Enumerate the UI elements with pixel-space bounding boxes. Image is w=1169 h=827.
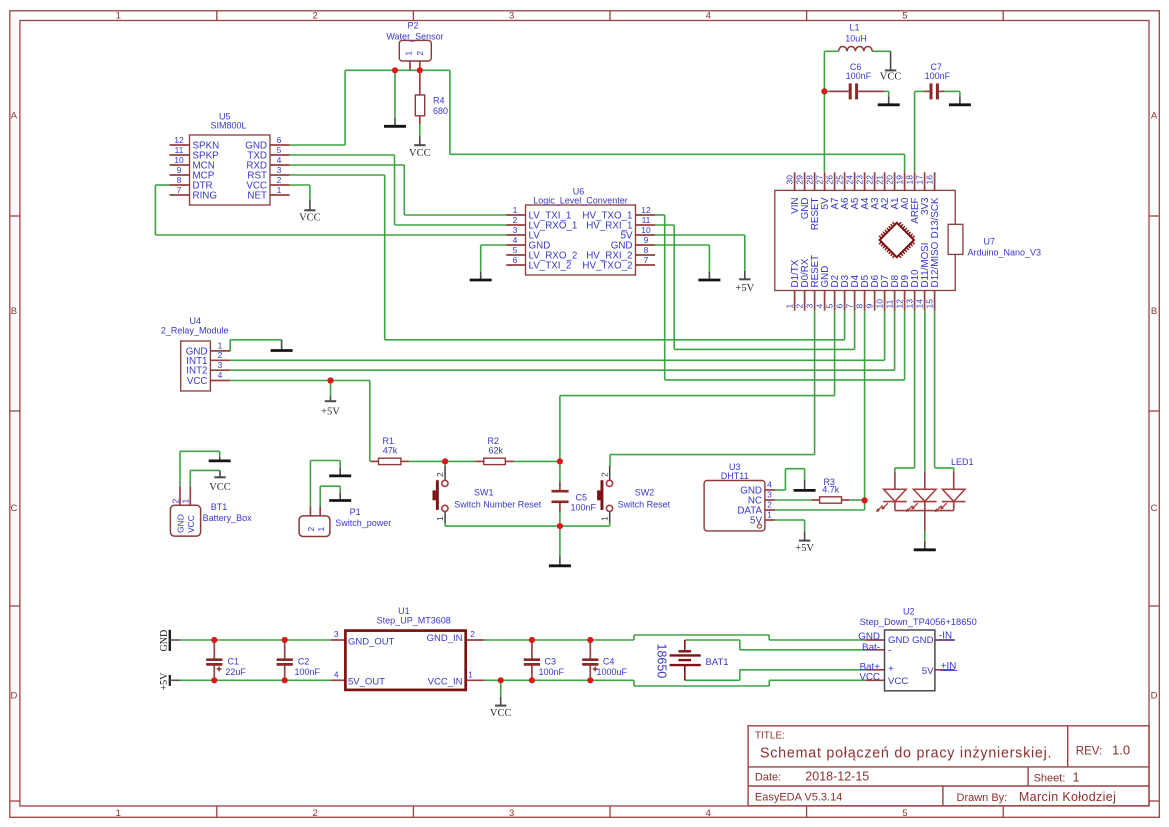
svg-text:5: 5	[277, 145, 282, 155]
svg-text:5: 5	[824, 304, 834, 309]
svg-text:VCC: VCC	[888, 676, 908, 687]
svg-text:1: 1	[600, 516, 610, 521]
svg-text:23: 23	[854, 175, 864, 185]
svg-text:3: 3	[218, 360, 223, 370]
svg-text:100nF: 100nF	[846, 71, 872, 81]
svg-text:2: 2	[218, 350, 223, 360]
svg-text:SW2: SW2	[635, 488, 655, 498]
svg-text:4: 4	[277, 155, 282, 165]
svg-text:L1: L1	[849, 23, 859, 33]
svg-text:Arduino_Nano_V3: Arduino_Nano_V3	[968, 248, 1042, 258]
svg-text:3: 3	[767, 490, 772, 500]
svg-text:1: 1	[435, 516, 445, 521]
svg-text:D12/MISO: D12/MISO	[930, 241, 941, 287]
svg-text:20: 20	[884, 175, 894, 185]
svg-text:11: 11	[642, 215, 651, 225]
svg-text:U4: U4	[190, 316, 202, 326]
svg-text:1: 1	[468, 669, 473, 679]
svg-text:3: 3	[509, 808, 514, 819]
svg-text:VCC_IN: VCC_IN	[428, 677, 463, 688]
svg-text:4: 4	[706, 808, 711, 819]
svg-text:12: 12	[894, 299, 904, 309]
svg-text:REV:: REV:	[1076, 746, 1102, 758]
svg-text:9: 9	[864, 304, 874, 309]
svg-text:D: D	[1151, 691, 1158, 702]
svg-text:2: 2	[312, 10, 317, 21]
svg-text:P1: P1	[350, 507, 361, 517]
svg-text:4: 4	[334, 669, 339, 679]
svg-text:1: 1	[784, 304, 794, 309]
svg-text:Battery_Box: Battery_Box	[203, 513, 253, 523]
svg-text:R2: R2	[488, 436, 500, 446]
svg-text:NET: NET	[247, 190, 267, 201]
svg-text:100nF: 100nF	[925, 71, 951, 81]
svg-text:10uH: 10uH	[845, 34, 867, 44]
svg-text:DHT11: DHT11	[721, 471, 749, 481]
svg-text:SIM800L: SIM800L	[210, 121, 246, 131]
svg-text:-: -	[888, 646, 891, 657]
svg-text:5V_OUT: 5V_OUT	[348, 677, 385, 688]
svg-text:Drawn By:: Drawn By:	[957, 792, 1008, 804]
svg-text:16: 16	[924, 175, 934, 185]
svg-text:5: 5	[513, 245, 518, 255]
svg-text:2: 2	[794, 304, 804, 309]
svg-text:8: 8	[644, 245, 649, 255]
svg-text:2: 2	[170, 499, 180, 504]
svg-text:Bat-: Bat-	[862, 643, 880, 654]
svg-text:VCC: VCC	[859, 672, 880, 683]
svg-text:19: 19	[894, 175, 904, 185]
svg-text:C5: C5	[576, 493, 588, 503]
svg-text:HV_TXO_2: HV_TXO_2	[582, 260, 632, 271]
svg-text:100nF: 100nF	[539, 667, 565, 677]
svg-text:C2: C2	[298, 656, 310, 666]
svg-text:1: 1	[277, 185, 282, 195]
svg-text:R1: R1	[383, 436, 395, 446]
svg-text:VCC: VCC	[187, 376, 208, 387]
svg-text:+5V: +5V	[159, 672, 170, 691]
svg-text:4: 4	[814, 304, 824, 309]
svg-text:BAT1: BAT1	[706, 657, 729, 668]
svg-text:12: 12	[641, 205, 651, 215]
svg-text:B: B	[1151, 306, 1157, 317]
svg-text:Bat+: Bat+	[860, 662, 881, 673]
svg-text:100nF: 100nF	[295, 667, 321, 677]
svg-text:GND: GND	[858, 632, 880, 643]
svg-text:3: 3	[513, 225, 518, 235]
svg-text:18650: 18650	[655, 644, 669, 679]
svg-text:24: 24	[844, 175, 854, 185]
svg-text:2: 2	[306, 527, 316, 532]
svg-text:2: 2	[435, 472, 445, 477]
svg-text:2: 2	[767, 500, 772, 510]
svg-text:BT1: BT1	[211, 502, 228, 512]
svg-text:R4: R4	[433, 96, 445, 106]
svg-text:30: 30	[784, 175, 794, 185]
svg-text:Step_UP_MT3608: Step_UP_MT3608	[377, 616, 451, 626]
svg-text:4: 4	[218, 370, 223, 380]
svg-text:U2: U2	[903, 606, 915, 616]
svg-text:VCC: VCC	[186, 515, 196, 533]
svg-text:10: 10	[641, 225, 651, 235]
svg-text:C: C	[1151, 503, 1158, 514]
svg-text:C3: C3	[545, 656, 557, 666]
svg-text:7: 7	[177, 185, 182, 195]
svg-text:680: 680	[433, 106, 448, 116]
svg-text:7: 7	[844, 304, 854, 309]
svg-text:P2: P2	[407, 21, 418, 31]
svg-text:3: 3	[334, 629, 339, 639]
svg-text:27: 27	[814, 175, 824, 185]
svg-text:VCC: VCC	[490, 708, 512, 719]
svg-text:C: C	[10, 503, 17, 514]
svg-text:2: 2	[415, 51, 425, 56]
svg-text:28: 28	[804, 175, 814, 185]
svg-text:2: 2	[513, 215, 518, 225]
svg-text:1: 1	[116, 10, 121, 21]
svg-text:6: 6	[277, 135, 282, 145]
svg-text:8: 8	[854, 304, 864, 309]
svg-text:9: 9	[644, 235, 649, 245]
svg-text:9: 9	[177, 165, 182, 175]
svg-text:GND_OUT: GND_OUT	[348, 637, 395, 648]
svg-text:22: 22	[864, 175, 874, 185]
svg-text:2: 2	[470, 629, 475, 639]
svg-text:A: A	[11, 111, 18, 122]
svg-text:1: 1	[404, 51, 414, 56]
svg-text:2: 2	[312, 808, 317, 819]
svg-text:11: 11	[175, 145, 184, 155]
svg-text:Switch Number Reset: Switch Number Reset	[454, 499, 542, 509]
svg-text:Step_Down_TP4056+18650: Step_Down_TP4056+18650	[860, 617, 977, 627]
svg-text:15: 15	[924, 299, 934, 309]
svg-text:VCC: VCC	[880, 71, 902, 82]
svg-text:10: 10	[874, 299, 884, 309]
svg-text:GND: GND	[912, 635, 933, 646]
svg-text:VCC: VCC	[299, 212, 321, 223]
svg-text:1000uF: 1000uF	[597, 667, 628, 677]
svg-text:Date:: Date:	[755, 772, 781, 784]
svg-text:VCC: VCC	[209, 482, 231, 493]
svg-text:Switch_power: Switch_power	[335, 518, 391, 528]
svg-text:4.7k: 4.7k	[822, 484, 840, 494]
svg-text:1: 1	[767, 510, 772, 520]
svg-text:11: 11	[884, 299, 894, 308]
svg-text:LED1: LED1	[951, 457, 974, 467]
svg-text:4: 4	[513, 235, 518, 245]
svg-text:14: 14	[914, 299, 924, 309]
svg-text:U7: U7	[984, 237, 996, 247]
svg-text:3: 3	[277, 165, 282, 175]
svg-text:5: 5	[902, 808, 907, 819]
svg-text:LV_TXI_2: LV_TXI_2	[529, 260, 572, 271]
svg-text:18: 18	[904, 175, 914, 185]
svg-text:1: 1	[116, 808, 121, 819]
svg-text:+5V: +5V	[321, 407, 340, 418]
svg-text:1: 1	[1073, 771, 1080, 785]
svg-text:C1: C1	[228, 656, 240, 666]
svg-text:26: 26	[824, 175, 834, 185]
svg-text:3: 3	[509, 10, 514, 21]
svg-text:B: B	[11, 306, 17, 317]
svg-text:GND_IN: GND_IN	[427, 633, 463, 644]
svg-text:+5V: +5V	[735, 283, 754, 294]
svg-text:2_Relay_Module: 2_Relay_Module	[161, 326, 229, 336]
svg-text:2: 2	[600, 472, 610, 477]
svg-text:C4: C4	[603, 656, 615, 666]
svg-text:5: 5	[902, 10, 907, 21]
svg-text:47k: 47k	[383, 445, 398, 455]
svg-text:EasyEDA V5.3.14: EasyEDA V5.3.14	[755, 792, 842, 804]
svg-text:13: 13	[904, 299, 914, 309]
svg-text:1: 1	[181, 499, 191, 504]
svg-text:3: 3	[804, 304, 814, 309]
svg-text:8: 8	[177, 175, 182, 185]
svg-text:U1: U1	[398, 606, 410, 616]
svg-text:Schemat połączeń do pracy inży: Schemat połączeń do pracy inżynierskiej.	[760, 746, 1052, 762]
svg-text:25: 25	[834, 175, 844, 185]
svg-text:17: 17	[914, 175, 924, 185]
svg-text:RING: RING	[193, 190, 218, 201]
svg-text:7: 7	[644, 255, 649, 265]
svg-text:1: 1	[316, 527, 326, 532]
svg-text:6: 6	[513, 255, 518, 265]
svg-text:TITLE:: TITLE:	[755, 731, 785, 742]
svg-text:22uF: 22uF	[225, 667, 246, 677]
svg-text:GND: GND	[176, 514, 186, 533]
svg-text:4: 4	[706, 10, 711, 21]
svg-text:2: 2	[277, 175, 282, 185]
svg-text:29: 29	[794, 175, 804, 185]
svg-text:Water_Sensor: Water_Sensor	[386, 32, 443, 42]
svg-text:10: 10	[174, 155, 184, 165]
svg-text:21: 21	[874, 175, 884, 185]
svg-text:1: 1	[513, 205, 518, 215]
svg-text:Sheet:: Sheet:	[1034, 773, 1066, 785]
svg-text:+: +	[888, 664, 894, 675]
svg-text:12: 12	[174, 135, 184, 145]
svg-text:62k: 62k	[488, 445, 503, 455]
svg-text:1.0: 1.0	[1112, 743, 1130, 758]
svg-text:2018-12-15: 2018-12-15	[805, 770, 869, 784]
svg-text:6: 6	[834, 304, 844, 309]
svg-text:A: A	[1151, 111, 1158, 122]
svg-text:Switch Reset: Switch Reset	[618, 499, 671, 509]
svg-text:D: D	[10, 691, 17, 702]
svg-text:100nF: 100nF	[571, 502, 597, 512]
svg-text:D13/SCK: D13/SCK	[930, 197, 941, 238]
svg-text:Marcin Kołodziej: Marcin Kołodziej	[1019, 790, 1116, 804]
svg-text:+5V: +5V	[795, 543, 814, 554]
svg-text:4: 4	[767, 480, 772, 490]
svg-text:SW1: SW1	[474, 488, 494, 498]
svg-text:5V: 5V	[922, 666, 934, 677]
svg-text:VCC: VCC	[409, 148, 431, 159]
svg-text:Logic_Level_Conventer: Logic_Level_Conventer	[533, 196, 628, 206]
svg-text:GND: GND	[159, 630, 170, 652]
